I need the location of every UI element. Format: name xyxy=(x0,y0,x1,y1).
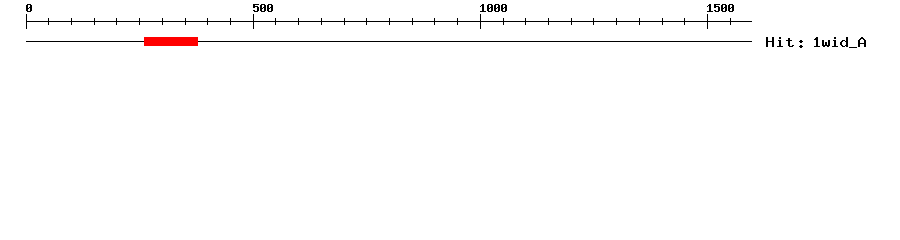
red alignment bar (aligned region on query) xyxy=(144,37,198,46)
minor ticks (every 50 residues) xyxy=(48,18,731,25)
background xyxy=(0,0,900,60)
hit sequence line xyxy=(26,41,752,42)
major tick 500 xyxy=(253,14,254,29)
ruler label 1000 xyxy=(480,4,507,12)
glyph A xyxy=(858,37,866,47)
ruler label 1500 xyxy=(707,4,734,12)
label text "Hit: 1wid_A" xyxy=(766,37,866,48)
major tick 0 xyxy=(26,14,27,29)
ruler axis line (residues 0..~1600 of query) xyxy=(26,21,752,22)
glyph d xyxy=(840,37,848,47)
ruler label 0 xyxy=(26,4,32,12)
ruler label 500 xyxy=(253,4,273,12)
glyph 1 xyxy=(814,37,820,47)
major tick 1000 xyxy=(480,14,481,29)
glyph underscore xyxy=(849,47,857,48)
glyph t xyxy=(786,38,794,47)
glyph i xyxy=(777,37,783,47)
glyph i xyxy=(832,37,838,47)
glyph H xyxy=(766,37,774,47)
glyph w xyxy=(822,40,830,47)
glyph colon xyxy=(799,40,803,48)
major tick 1500 xyxy=(707,14,708,29)
